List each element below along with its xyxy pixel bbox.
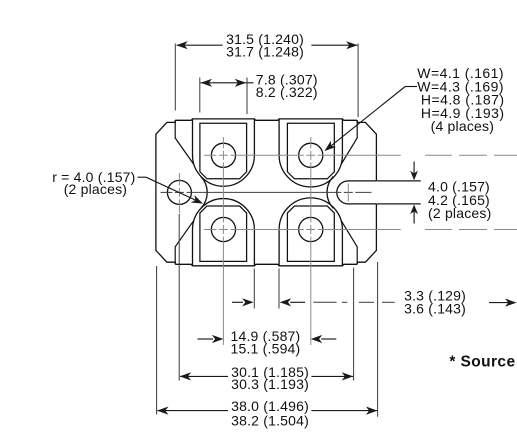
terminal well outline top-left — [193, 119, 255, 186]
corner wall edge bottom-left — [175, 220, 194, 264]
centerline left terminal column — [222, 137, 224, 345]
terminal well outline bottom-right — [279, 198, 342, 266]
waist fillet radius left (r=4.0, between left terminals) — [201, 177, 207, 209]
terminal screw hole top-left — [211, 143, 235, 167]
svg-text:30.3 (1.193): 30.3 (1.193) — [231, 376, 309, 392]
label r = 4.0 (.157) (2 places) — [52, 169, 135, 197]
centerline left mounting hole vertical — [178, 173, 180, 213]
terminal metal pad bottom-right — [287, 206, 334, 261]
dimension 4.0 (.157) / 4.2 (.165) slot width (2 places) — [377, 162, 492, 224]
leader to terminal screw hole top-right — [325, 87, 418, 152]
dimension 7.8 (.307) / 8.2 (.322) terminal pad width — [200, 71, 318, 114]
footnote * Source — [449, 354, 517, 371]
centerline lower terminal row — [204, 229, 401, 231]
dimension 14.9 (.587) / 15.1 (.594) terminal column spacing — [198, 328, 337, 356]
waist fillet radius right (r=4.0, between right terminals) — [327, 177, 333, 209]
svg-text:3.6 (.143): 3.6 (.143) — [404, 301, 466, 317]
svg-text:31.7 (1.248): 31.7 (1.248) — [226, 43, 304, 59]
centerline lower row dash-dot extension right — [425, 229, 517, 231]
svg-text:* Source: D: * Source: D — [449, 354, 517, 371]
label W/H terminal hole size (4 places) — [417, 65, 504, 134]
mounting slot right — [337, 181, 377, 204]
terminal metal pad top-left — [200, 123, 247, 179]
terminal screw hole top-right — [299, 143, 323, 167]
terminal well outline bottom-left — [193, 199, 255, 266]
centerline upper row dash-dot extension right — [425, 154, 517, 156]
svg-text:15.1 (.594): 15.1 (.594) — [231, 340, 301, 356]
terminal metal pad top-right — [287, 123, 334, 179]
terminal screw hole bottom-right — [299, 217, 323, 241]
svg-text:(2 places): (2 places) — [64, 181, 127, 197]
svg-text:8.2 (.322): 8.2 (.322) — [256, 84, 318, 100]
dimension 30.1 (1.185) / 30.3 (1.193) hole to slot — [179, 214, 353, 392]
centerline right terminal column — [310, 137, 312, 345]
dimension 31.5 (1.240) / 31.7 (1.248) mounting hole spacing — [175, 31, 358, 117]
body top edge with raised terminal feet — [175, 119, 357, 120]
centerline slot vertical — [347, 183, 349, 201]
corner wall edge top-left — [175, 120, 194, 164]
package body outline left portion (chamfered corners and edge steps) — [156, 120, 175, 264]
mounting hole left — [167, 180, 191, 204]
dimension 38.0 (1.496) / 38.2 (1.504) overall body width — [157, 262, 378, 428]
corner wall edge top-right — [341, 120, 357, 164]
svg-text:38.2 (1.504): 38.2 (1.504) — [231, 412, 309, 428]
corner wall edge bottom-right — [341, 220, 357, 264]
package body outline right portion (chamfers, right edge interrupted by slot) — [357, 120, 376, 264]
svg-text:(4 places): (4 places) — [431, 118, 494, 134]
body bottom edge with raised terminal feet — [175, 264, 357, 266]
terminal screw hole bottom-left — [211, 217, 235, 241]
terminal well outline top-right — [279, 119, 342, 187]
centerline upper terminal row — [204, 154, 401, 156]
terminal metal pad bottom-left — [200, 206, 247, 261]
svg-text:(2 places): (2 places) — [428, 205, 491, 221]
leader to waist fillet radius — [138, 177, 204, 203]
centerline horizontal main axis — [161, 191, 372, 193]
dimension 3.3 (.129) / 3.6 (.143) gap between terminal wells — [232, 269, 517, 317]
